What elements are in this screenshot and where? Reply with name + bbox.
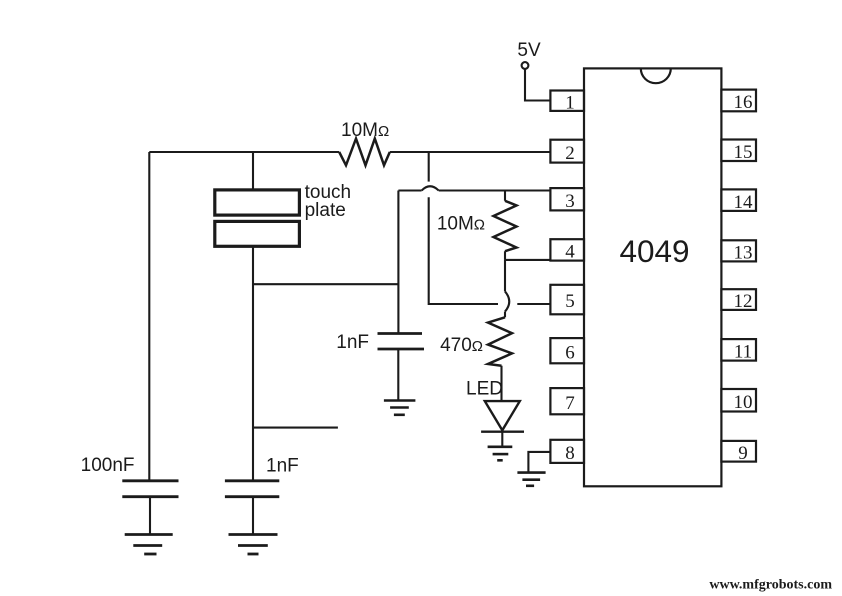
resistor R3 470	[488, 317, 512, 365]
wire touch plate down	[252, 246, 254, 480]
svg-text:4: 4	[565, 242, 575, 263]
svg-text:4049: 4049	[619, 233, 689, 269]
pin 5	[550, 285, 584, 315]
pin 6	[550, 338, 584, 363]
resistor R1 10M	[339, 139, 390, 166]
wire pin 8 to ground	[528, 452, 550, 473]
pin 4	[550, 239, 584, 262]
wire cross link	[253, 283, 398, 285]
wire pin 3 rail	[398, 189, 421, 191]
wire hop over pin5 rail	[505, 291, 509, 311]
pin 13	[721, 240, 756, 263]
LED D1	[481, 401, 524, 432]
ground G1	[125, 535, 173, 555]
svg-text:3: 3	[565, 191, 575, 212]
capacitor C3 1nF plates	[225, 481, 279, 497]
wire R3 to LED	[500, 366, 502, 401]
wire hop to pin 3	[439, 189, 551, 191]
wire pin4 junction down	[504, 260, 506, 292]
svg-text:16: 16	[734, 92, 753, 113]
resistor R2 10M	[494, 201, 517, 251]
wire vertical junction branch upper	[428, 152, 430, 182]
svg-text:10: 10	[734, 392, 753, 413]
wire C3 to ground	[252, 497, 254, 535]
power terminal 5V	[522, 62, 529, 69]
touch plate lower electrode	[215, 221, 300, 246]
ground G5	[517, 473, 545, 486]
svg-text:8: 8	[565, 443, 575, 464]
pin 3	[550, 188, 584, 212]
ground G2	[229, 535, 278, 555]
capacitor C1 100nF plates	[122, 481, 178, 497]
svg-text:6: 6	[565, 342, 575, 363]
IC U1 4049 body	[584, 68, 721, 486]
pin 2	[550, 140, 584, 164]
pin 11	[721, 339, 756, 362]
pin 1	[550, 91, 584, 114]
wire stub	[253, 427, 338, 429]
pin 10	[721, 389, 756, 413]
wire left vertical from top rail	[148, 152, 150, 481]
pin 14	[721, 189, 756, 212]
svg-text:1: 1	[565, 92, 575, 113]
wire hop over vertical	[422, 186, 439, 190]
svg-text:www.mfgrobots.com: www.mfgrobots.com	[709, 578, 832, 593]
svg-text:5: 5	[565, 291, 575, 312]
wire 5V to pin 1	[525, 69, 550, 101]
svg-text:1nF: 1nF	[266, 456, 299, 477]
wire vertical junction branch lower	[429, 197, 498, 304]
wire hop to R3	[504, 312, 506, 318]
pin 12	[721, 289, 756, 312]
svg-text:15: 15	[734, 142, 753, 163]
pin 8	[550, 440, 584, 464]
pin 7	[550, 388, 584, 414]
wire to pin 5	[517, 303, 550, 305]
svg-text:12: 12	[734, 291, 753, 312]
svg-text:LED: LED	[466, 379, 503, 400]
svg-text:10MΩ: 10MΩ	[341, 120, 389, 141]
wire LED to ground	[501, 432, 503, 447]
pin 15	[721, 140, 756, 163]
svg-text:plate: plate	[305, 200, 346, 221]
wire C2 to ground	[397, 349, 399, 401]
wire top rail left	[149, 151, 339, 153]
wire to pin 4	[505, 259, 550, 261]
pin 9	[721, 441, 756, 464]
label touch plate	[305, 182, 351, 221]
wire touch plate branch top	[252, 152, 254, 190]
ground G4	[488, 447, 513, 461]
svg-text:14: 14	[734, 192, 754, 213]
svg-text:2: 2	[565, 143, 575, 164]
svg-text:1nF: 1nF	[336, 332, 369, 353]
svg-text:9: 9	[738, 443, 748, 464]
IC notch	[641, 68, 671, 83]
svg-text:10MΩ: 10MΩ	[437, 214, 485, 235]
ground G3	[384, 401, 416, 415]
svg-text:11: 11	[734, 342, 752, 363]
wire 1nF branch vertical	[397, 191, 399, 334]
capacitor C2 1nF plates	[378, 334, 425, 350]
wire resistor to pin 2	[390, 151, 551, 153]
svg-text:13: 13	[734, 243, 753, 264]
pin 16	[721, 90, 756, 114]
svg-text:7: 7	[565, 393, 575, 414]
wire R2 to pin4 junction	[504, 251, 506, 260]
svg-text:100nF: 100nF	[81, 455, 135, 476]
wire R2 branch from pin3 rail	[504, 191, 506, 201]
wire C1 to ground	[149, 497, 151, 535]
touch plate upper electrode	[215, 190, 300, 215]
svg-text:470Ω: 470Ω	[440, 335, 483, 356]
svg-text:5V: 5V	[517, 40, 541, 61]
